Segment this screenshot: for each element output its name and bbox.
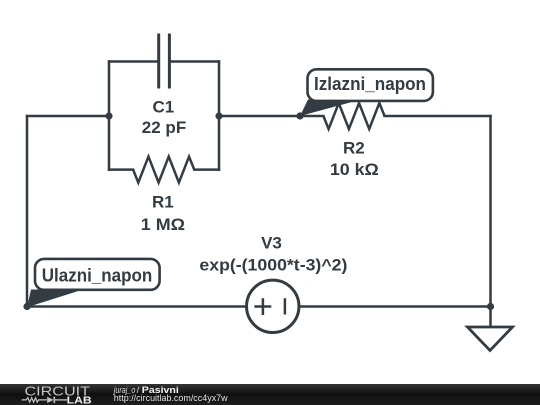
wire right vertical [489, 116, 492, 307]
wire ground stub [489, 307, 492, 328]
svg-text:http://circuitlab.com/cc4yx7w: http://circuitlab.com/cc4yx7w [114, 393, 228, 404]
wire R2 to corner [385, 115, 491, 118]
voltage source V3 [247, 280, 299, 332]
svg-text:Izlazni_napon: Izlazni_napon [314, 73, 426, 94]
ground [468, 327, 513, 351]
wire bottom left [27, 305, 245, 308]
node Izlazni_napon [296, 112, 303, 119]
wire bottom right [300, 305, 490, 308]
wire left horizontal top [27, 115, 109, 118]
capacitor C1 [159, 34, 170, 89]
node dot right-box [215, 112, 222, 119]
svg-text:10 kΩ: 10 kΩ [330, 160, 379, 179]
wire box bottom-right [194, 168, 219, 171]
wire box top-left [109, 60, 157, 63]
svg-text:1 MΩ: 1 MΩ [141, 215, 185, 234]
node Ulazni_napon [23, 303, 30, 310]
flag Izlazni_napon tail [300, 100, 361, 117]
svg-text:22 pF: 22 pF [142, 118, 186, 137]
svg-text:LAB: LAB [67, 395, 92, 405]
wire box left vertical [108, 62, 111, 170]
svg-text:V3: V3 [261, 234, 282, 253]
flag Ulazni_napon box [35, 259, 160, 290]
wire box bottom-left [109, 168, 133, 171]
logo wire resistor [22, 398, 47, 402]
node dot left-box [105, 112, 112, 119]
node dot ground junction [487, 303, 494, 310]
wire box right vertical [218, 62, 221, 170]
svg-text:exp(-(1000*t-3)^2): exp(-(1000*t-3)^2) [199, 256, 347, 275]
svg-text:R2: R2 [343, 139, 365, 158]
wire left vertical [26, 116, 29, 307]
logo diode [47, 397, 53, 403]
wire middle horizontal [219, 115, 323, 118]
flag Izlazni_napon box [308, 69, 433, 101]
svg-text:C1: C1 [153, 98, 175, 117]
resistor R2 [323, 103, 384, 129]
resistor R1 [133, 157, 194, 183]
svg-text:Ulazni_napon: Ulazni_napon [42, 265, 153, 286]
svg-text:R1: R1 [152, 193, 174, 212]
flag Ulazni_napon tail [27, 290, 83, 308]
logo wire to LAB [54, 399, 67, 401]
wire box top-right [171, 60, 219, 63]
